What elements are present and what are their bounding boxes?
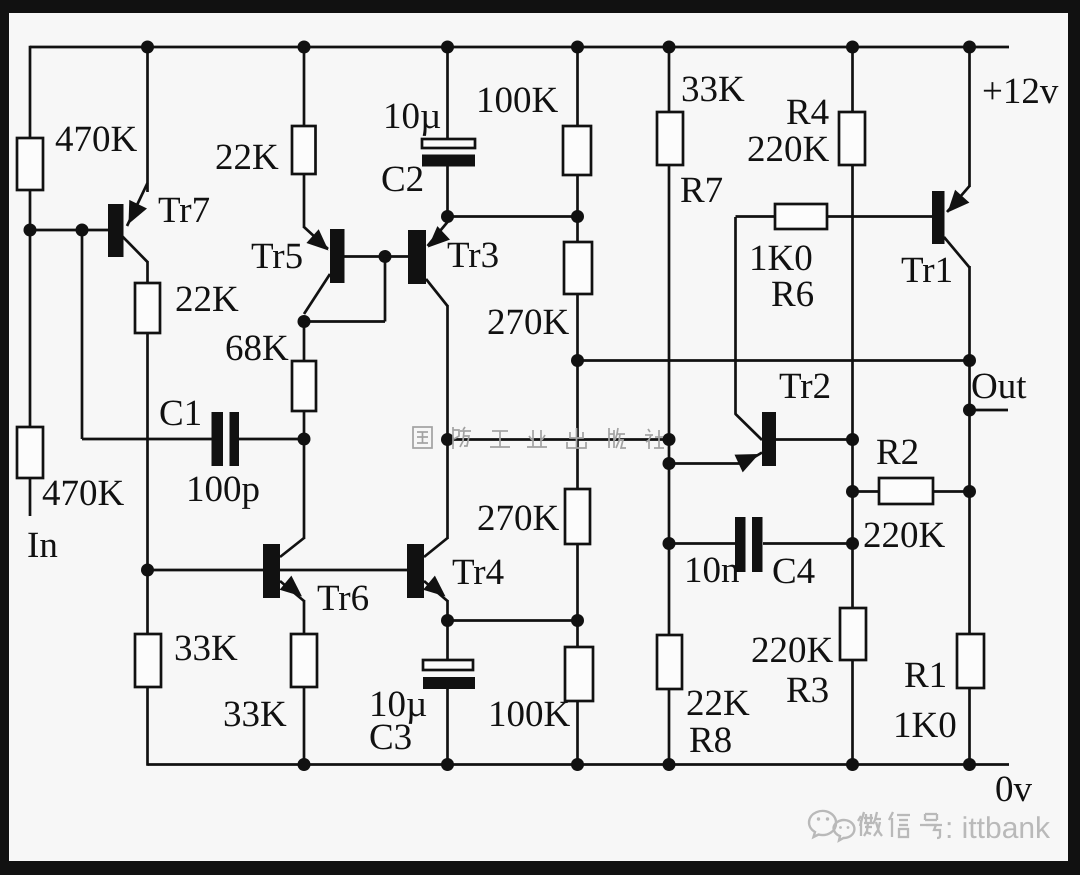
wire C1 branch vertical (81, 230, 84, 439)
label 33K col2 (174, 628, 238, 669)
wire R2 left (853, 490, 880, 493)
svg-text:1K0: 1K0 (749, 238, 813, 279)
wire col2 mid (146, 333, 149, 570)
svg-text:100K: 100K (476, 80, 559, 121)
wire 0v bottom rail (148, 763, 1010, 766)
wire feedback link (578, 359, 970, 362)
label Tr3 (447, 235, 499, 276)
svg-text:22K: 22K (175, 279, 239, 320)
capacitor C1 plate left (212, 412, 224, 466)
wire R6 left (736, 215, 776, 218)
svg-text:Tr5: Tr5 (251, 236, 303, 277)
svg-text:Tr7: Tr7 (158, 190, 210, 231)
label C2 (381, 159, 424, 200)
svg-text:68K: 68K (225, 328, 289, 369)
wire Tr4 collector (424, 538, 448, 557)
node C4 left junction (663, 537, 676, 550)
label 270K upper (487, 302, 570, 343)
svg-text:R1: R1 (904, 655, 947, 696)
label Tr5 (251, 236, 303, 277)
wire Tr2 collector diagonal (735, 414, 762, 441)
svg-text:33K: 33K (223, 694, 287, 735)
border frame bottom (0, 861, 1080, 875)
label 220K R4 (747, 129, 830, 170)
svg-text:Out: Out (971, 366, 1027, 407)
wire C4 left (669, 542, 735, 545)
wire col2 top (146, 47, 149, 192)
label 22K R8 (686, 683, 750, 724)
node C4 right junction (846, 537, 859, 550)
wire col3 emitter to 33K (303, 600, 306, 635)
wire Tr6 emitter (280, 576, 304, 601)
label wechat colon ittbank (945, 812, 1051, 845)
label 10u C2 (383, 96, 441, 137)
wire col3 to Tr6 (303, 439, 306, 539)
resistor R3 220K (840, 608, 866, 660)
label Out (971, 366, 1027, 407)
wire Tr7 base (30, 229, 108, 232)
svg-text:22K: 22K (686, 683, 750, 724)
label R4 (786, 92, 829, 133)
wire col3 to Tr5 (303, 174, 306, 228)
resistor R8 22K (657, 635, 682, 689)
svg-text:R8: R8 (689, 720, 732, 761)
watermark text (413, 427, 664, 449)
wire Tr5 emitter (304, 227, 329, 251)
resistor R2 220K (879, 478, 933, 504)
wire R2 right (933, 490, 970, 493)
label C3 (369, 717, 412, 758)
wire col4 to rail (446, 689, 449, 765)
transistor Q Tr5 (330, 229, 345, 283)
wire C4 right (763, 542, 853, 545)
label R7 (680, 170, 723, 211)
wire col1 top (29, 46, 32, 139)
svg-text:C4: C4 (772, 551, 815, 592)
svg-text:R3: R3 (786, 670, 829, 711)
node R2 right junction (963, 485, 976, 498)
resistor R7 33K (657, 112, 683, 165)
svg-text:220K: 220K (751, 630, 834, 671)
wire Tr6 Tr4 base (148, 569, 264, 572)
capacitor C3 plate bottom (423, 677, 475, 689)
svg-text:Tr4: Tr4 (452, 552, 504, 593)
wire base link vertical (384, 257, 387, 322)
svg-text:470K: 470K (42, 473, 125, 514)
label R2 (876, 432, 919, 473)
label 0v (995, 769, 1033, 810)
capacitor C1 plate right (230, 412, 240, 466)
capacitor C4 plate left (735, 517, 746, 572)
wire col7 top (851, 47, 854, 113)
svg-text:0v: 0v (995, 769, 1033, 810)
label R8 (689, 720, 732, 761)
node col4 lower junction (441, 614, 454, 627)
svg-text:R2: R2 (876, 432, 919, 473)
border frame right (1068, 0, 1080, 875)
svg-text:470K: 470K (55, 119, 138, 160)
svg-text:22K: 22K (215, 137, 279, 178)
capacitor C3 plate top (423, 660, 473, 670)
capacitor C2 plate top (422, 139, 475, 148)
wire col6 below C4 (668, 544, 671, 637)
svg-text:Tr1: Tr1 (901, 250, 953, 291)
node col5 upper junction (571, 210, 584, 223)
label C1 (159, 393, 202, 434)
svg-text:100p: 100p (186, 469, 260, 510)
node col6 mid junction (663, 433, 676, 446)
wire col4 mid (446, 305, 449, 440)
svg-text:100K: 100K (488, 694, 571, 735)
resistor 22K col3 (292, 126, 316, 174)
transistor Q Tr2 (762, 412, 776, 466)
resistor 33K col3 (291, 634, 317, 687)
wire col5 seg2 (576, 175, 579, 243)
resistor R4 220K (839, 112, 865, 165)
wire col8 to rail (968, 688, 971, 765)
node C1 col3 junction (298, 433, 311, 446)
label 22K col2 (175, 279, 239, 320)
svg-text:10µ: 10µ (383, 96, 441, 137)
wire Tr1 collector (944, 237, 970, 268)
wire col5 to rail (576, 701, 579, 765)
node col8 feedback junction (963, 354, 976, 367)
node col6 top rail (663, 41, 676, 54)
wire +12v top rail (30, 46, 1009, 49)
wire col7 long (851, 165, 854, 440)
node col4 C2 junction (441, 210, 454, 223)
label wechat id prefix (858, 812, 942, 838)
node col8 bottom rail (963, 758, 976, 771)
border frame left (0, 0, 9, 875)
wire col5 seg3 (576, 294, 579, 490)
node col5 bottom rail (571, 758, 584, 771)
label 220K R3 (751, 630, 834, 671)
node col4 bottom rail (441, 758, 454, 771)
label 22K col3 (215, 137, 279, 178)
wire col5 seg4 (576, 544, 579, 648)
resistor R1 1K0 (957, 634, 984, 688)
svg-text:10n: 10n (684, 550, 740, 591)
label 68K (225, 328, 289, 369)
node Tr6 base junction (141, 564, 154, 577)
node col5 feedback junction (571, 354, 584, 367)
resistor 470K upper (17, 138, 43, 190)
wire Tr2 emitter diagonal (735, 453, 763, 473)
node Tr2 emitter junction (663, 457, 676, 470)
label 100p (186, 469, 260, 510)
wire Out stub (970, 409, 1009, 412)
label 33K col3 (223, 694, 287, 735)
border frame top (0, 0, 1080, 13)
label 33K R7 (681, 69, 745, 110)
wire col4 to col5 link (448, 215, 578, 218)
resistor R6 1K0 (775, 204, 827, 229)
svg-text:Tr2: Tr2 (779, 366, 831, 407)
label Tr2 (779, 366, 831, 407)
wire col4 below C2 (446, 166, 449, 217)
svg-text:Tr3: Tr3 (447, 235, 499, 276)
node col3 bottom rail (298, 758, 311, 771)
label 100K upper (476, 80, 559, 121)
wire col3 to rail (303, 687, 306, 765)
svg-text:R6: R6 (771, 274, 814, 315)
svg-text:1K0: 1K0 (893, 705, 957, 746)
label 1K0 R6 (749, 238, 813, 279)
resistor 470K lower (17, 427, 43, 478)
svg-text:+12v: +12v (982, 71, 1059, 112)
svg-text:33K: 33K (681, 69, 745, 110)
wire Tr2 collector vertical (734, 217, 737, 414)
label +12v (982, 71, 1059, 112)
label 270K lower (477, 498, 560, 539)
svg-text:R7: R7 (680, 170, 723, 211)
wire col8 seg4 (968, 492, 971, 636)
transistor Q Tr6 (263, 544, 280, 598)
wire Tr7 emitter (127, 183, 148, 226)
svg-text:270K: 270K (487, 302, 570, 343)
wire input stub (29, 478, 32, 516)
node col4 top rail (441, 41, 454, 54)
resistor 22K col2 (135, 283, 160, 333)
wire col6 top (668, 47, 671, 113)
node Tr2 base junction (846, 433, 859, 446)
wire col4 to Tr4 (446, 440, 449, 540)
svg-text:220K: 220K (863, 515, 946, 556)
node col7 top rail (846, 41, 859, 54)
capacitor C4 plate right (752, 517, 763, 572)
label Tr1 (901, 250, 953, 291)
wire col5 top (576, 47, 579, 127)
label 470K upper (55, 119, 138, 160)
node R2 left junction (846, 485, 859, 498)
node col5 lower junction (571, 614, 584, 627)
label 10n (684, 550, 740, 591)
wire R6 to Tr1 base (827, 215, 932, 218)
node Tr5 Tr3 base (379, 250, 392, 263)
capacitor C2 plate bottom (422, 155, 475, 167)
svg-text:270K: 270K (477, 498, 560, 539)
svg-text:33K: 33K (174, 628, 238, 669)
transistor Q Tr1 (932, 191, 945, 244)
wire Tr3 collector (426, 279, 448, 306)
node col8 top rail (963, 41, 976, 54)
node col3 top rail (298, 41, 311, 54)
wire col2 below Tr7 (146, 261, 149, 284)
label R1 (904, 655, 947, 696)
svg-text:C2: C2 (381, 159, 424, 200)
wire col4 to col5 lower link (448, 619, 578, 622)
node C1 branch (76, 224, 89, 237)
wire col3 below 68K (303, 411, 306, 439)
resistor 100K upper (563, 126, 591, 175)
node col5 top rail (571, 41, 584, 54)
wire Tr2 base (776, 438, 853, 441)
label 100K lower (488, 694, 571, 735)
label 1K0 R1 (893, 705, 957, 746)
wire col8 seg3 (968, 410, 971, 492)
wire col4 to col6 link (448, 438, 670, 441)
transistor Q Tr7 (108, 204, 124, 257)
label 470K lower (42, 473, 125, 514)
wire col7 to R2 (851, 440, 854, 493)
node Out junction (963, 404, 976, 417)
wire col3 top (303, 47, 306, 127)
svg-text:220K: 220K (747, 129, 830, 170)
resistor 270K upper (564, 242, 592, 294)
svg-text:Tr6: Tr6 (317, 578, 369, 619)
label Tr4 (452, 552, 504, 593)
wire col4 below Tr4 (446, 600, 449, 621)
wire col4 to C3 (446, 621, 449, 662)
label R6 (771, 274, 814, 315)
wire base between Tr6 Tr4 (280, 569, 407, 572)
wire col7 below C4 (851, 544, 854, 610)
transistor Q Tr3 (408, 230, 426, 284)
wire C1 to col3 (239, 438, 304, 441)
label Tr7 (158, 190, 210, 231)
wire col3 to 68K (303, 322, 306, 363)
label Tr6 (317, 578, 369, 619)
wire Tr6 collector (280, 538, 304, 557)
resistor 33K col2 (135, 634, 161, 687)
wire col8 mid (968, 266, 971, 410)
wire col6 to rail (668, 689, 671, 765)
wire Tr4 emitter (423, 576, 447, 601)
wire Tr7 collector (122, 236, 148, 262)
wire C1 branch horizontal (82, 438, 212, 441)
wire col2 to rail (146, 687, 149, 766)
resistor 68K (292, 361, 316, 411)
wire base link horizontal (304, 320, 385, 323)
wire col4 top (446, 47, 449, 140)
transistor Q Tr4 (407, 544, 424, 598)
label In (27, 525, 58, 566)
svg-text:C3: C3 (369, 717, 412, 758)
resistor 100K lower (565, 647, 593, 701)
node input junction (24, 224, 37, 237)
svg-text:C1: C1 (159, 393, 202, 434)
wire Tr3 base (385, 255, 408, 258)
resistor 270K lower (565, 489, 590, 544)
wire col8 top (968, 47, 971, 187)
node col7 bottom rail (846, 758, 859, 771)
wire Tr5 base link (344, 255, 385, 258)
node col4 mid junction (441, 433, 454, 446)
wire Tr5 collector (304, 274, 330, 314)
wire Tr2 emitter horizontal (669, 462, 744, 465)
wire col6 to C4 (668, 464, 671, 545)
wire col7 to C4 (851, 492, 854, 545)
label C4 (772, 551, 815, 592)
svg-text:: ittbank: : ittbank (945, 812, 1051, 845)
wire col1 mid (29, 190, 32, 428)
svg-text:R4: R4 (786, 92, 829, 133)
wire Tr3 emitter (428, 222, 451, 248)
wire col7 to rail (851, 660, 854, 765)
svg-text:In: In (27, 525, 58, 566)
node col6 bottom rail (663, 758, 676, 771)
label 10u C3 (369, 684, 427, 725)
wire col6 long (668, 165, 671, 464)
node col2 top rail (141, 41, 154, 54)
node col3 Tr5 collector (298, 315, 311, 328)
wire Tr1 emitter (947, 186, 970, 213)
wire col2 lower (146, 570, 149, 635)
label R3 (786, 670, 829, 711)
logo wechat icon (809, 811, 854, 841)
label 220K R2 (863, 515, 946, 556)
